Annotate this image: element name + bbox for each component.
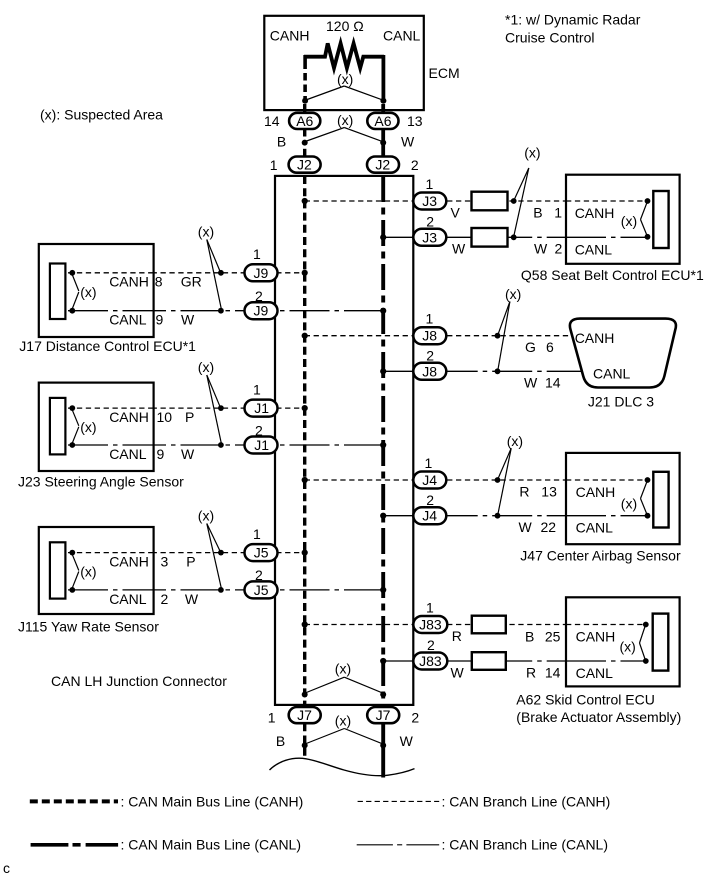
node bus CANH junction y408 (302, 405, 308, 411)
node J17 CANL pin (69, 308, 75, 314)
label J23 CANL pin number (157, 446, 165, 462)
svg-text:R: R (526, 665, 536, 681)
wire break squiggle (270, 758, 415, 775)
svg-text:W: W (534, 240, 548, 256)
connector J8 pin 1 (413, 327, 446, 344)
node branch J23 CANL (218, 442, 224, 448)
label J115 CANL pin number (161, 591, 169, 607)
svg-text:J115 Yaw Rate Sensor: J115 Yaw Rate Sensor (18, 619, 159, 635)
wire inside J17 CANH (68, 272, 154, 274)
node branch J17 CANL (218, 308, 224, 314)
suspect mark branch J17 (198, 224, 222, 309)
pin 1 label J7 (268, 710, 276, 726)
node ECM CANH (302, 98, 308, 104)
svg-text:22: 22 (541, 519, 557, 535)
connector A6 pin 14 (289, 113, 320, 129)
node J8 branch CANL (495, 368, 501, 374)
svg-text:: CAN Branch Line (CANH): : CAN Branch Line (CANH) (442, 793, 611, 809)
svg-text:(x): (x) (620, 639, 636, 655)
wire CAN branch CANL J17 (72, 310, 384, 312)
svg-text:W: W (519, 519, 533, 535)
svg-text:*1: w/ Dynamic Radar: *1: w/ Dynamic Radar (505, 12, 641, 28)
label caption DLC3 (588, 394, 654, 410)
node Q58 CANH pin (645, 198, 651, 204)
svg-text:CANL: CANL (575, 241, 613, 257)
device box Q58 (566, 175, 680, 264)
label J3 CANL wire color W (452, 240, 466, 256)
svg-text:J4: J4 (422, 472, 437, 488)
svg-text:CANL: CANL (109, 446, 147, 462)
svg-text:1: 1 (268, 710, 276, 726)
svg-text:1: 1 (253, 526, 261, 542)
noise filter CANH Q58 (472, 192, 508, 211)
suspect mark branch J23 (198, 359, 222, 443)
device box A62 (566, 597, 680, 686)
svg-text:B: B (525, 628, 534, 644)
svg-text:J21 DLC 3: J21 DLC 3 (588, 394, 654, 410)
svg-text:CANL: CANL (109, 312, 147, 328)
svg-text:3: 3 (161, 554, 169, 570)
node J17 CANH pin (69, 270, 75, 276)
node bus CANH junction y624 (302, 621, 308, 627)
label J23 CANH wire color (185, 409, 194, 425)
connector J5 pin 2 (245, 581, 278, 598)
wire ECM CANH lead (303, 55, 307, 101)
connector J3 pin 2 (413, 229, 446, 246)
ECM CANH label (270, 28, 310, 44)
wire stub A6 right (381, 104, 385, 113)
node bus CANH junction y201 (302, 198, 308, 204)
svg-text:J2: J2 (375, 157, 390, 173)
node bus CANL junction y371 (380, 368, 386, 374)
label caption J17 (19, 338, 196, 354)
svg-text:CANH: CANH (576, 629, 616, 645)
label J17 oval pin 2 (255, 288, 263, 304)
label caption J115 (18, 619, 159, 635)
device shape DLC3 (570, 319, 676, 388)
label caption J47 (520, 547, 681, 563)
svg-text:A6: A6 (296, 113, 313, 129)
node B below J7 (302, 742, 308, 748)
wire inside J23 CANH (68, 407, 154, 409)
label DLC3 CANL (593, 366, 631, 382)
label A62 CANH (576, 629, 616, 645)
svg-text:(x): (x) (198, 359, 214, 375)
node J8 branch CANH (495, 333, 501, 339)
label B below J7 (276, 733, 285, 749)
svg-text:(x): (x) (198, 224, 214, 240)
wire inside J47 CANL (566, 515, 648, 517)
connector A6 pin 13 (367, 113, 398, 129)
suspect mark A6-J2 (305, 112, 382, 142)
label J8 pin 2 (426, 348, 434, 364)
pin 13 label (407, 113, 423, 129)
svg-text:1: 1 (253, 246, 261, 262)
connector J8 pin 2 (413, 363, 446, 380)
wire CAN branch CANH J4 (305, 479, 648, 481)
svg-text:CANH: CANH (575, 330, 615, 346)
connector J1 pin 1 (245, 400, 278, 417)
wire stub A6 left (303, 104, 306, 113)
wire CAN branch CANH J23 (72, 407, 305, 409)
node bus CANL junction y515 (380, 513, 386, 519)
svg-text:J1: J1 (254, 437, 269, 453)
svg-text:CANH: CANH (270, 28, 310, 44)
label J23 oval pin 2 (255, 422, 263, 438)
svg-text:W: W (181, 312, 195, 328)
label A62 CANL pin 14 (545, 665, 561, 681)
svg-text:W: W (185, 591, 199, 607)
node bus CANL bottom (380, 692, 386, 698)
device box J115 (39, 527, 154, 614)
legend main bus CANL (31, 837, 301, 853)
legend branch CANL (357, 837, 608, 853)
connector J2 pin 1 (289, 157, 321, 173)
svg-text:(x): (x) (337, 112, 353, 128)
connector J1 pin 2 (245, 437, 278, 454)
svg-text:6: 6 (546, 339, 554, 355)
suspect mark inside Q58 (621, 203, 647, 235)
svg-text:(x): (x) (335, 661, 351, 677)
label DLC3 CANL pin 14 (545, 374, 561, 390)
suspect mark below J7 (305, 713, 383, 745)
resistor 120 ohm (304, 18, 384, 68)
svg-text:A62 Skid Control ECU: A62 Skid Control ECU (516, 692, 655, 708)
node bus CANL junction y310 (380, 308, 386, 314)
label J17 CANL pin number (156, 312, 164, 328)
wire inside J17 CANL (68, 310, 154, 312)
svg-text:CANL: CANL (576, 520, 614, 536)
svg-text:c: c (3, 860, 10, 876)
label caption Q58 (521, 267, 704, 283)
label J47 CANL pin 22 (541, 519, 557, 535)
pin 14 label (264, 113, 280, 129)
label J23 CANL wire color (181, 446, 195, 462)
svg-text:(x): (x) (621, 496, 637, 512)
svg-text:J83: J83 (419, 653, 442, 669)
svg-text:J5: J5 (254, 545, 269, 561)
svg-text:2: 2 (426, 492, 434, 508)
note dynamic radar (505, 12, 641, 46)
svg-text:1: 1 (426, 600, 434, 616)
note suspected area (40, 107, 163, 123)
svg-text:W: W (452, 240, 466, 256)
legend main bus CANH (30, 793, 304, 809)
connector pins J47 (653, 472, 668, 528)
label W below J7 (400, 733, 414, 749)
label caption J23 (18, 474, 184, 490)
suspect mark above J7 (305, 661, 383, 694)
node J115 CANL pin (69, 587, 75, 593)
wire inside A62 CANH (566, 624, 646, 626)
pin 2 label J2 (411, 157, 419, 173)
wire CAN branch CANL J115 (72, 589, 384, 591)
svg-text:J2: J2 (297, 157, 312, 173)
label DLC3 CANL wire color W (524, 374, 538, 390)
connector J9 pin 2 (245, 302, 278, 319)
suspect mark inside J17 (72, 275, 96, 310)
svg-text:CANL: CANL (593, 366, 631, 382)
svg-text:2: 2 (411, 157, 419, 173)
label J47 CANH wire color R (519, 484, 529, 500)
svg-text:CANH: CANH (576, 484, 616, 500)
label J47 CANL wire color W (519, 519, 533, 535)
svg-text:(x): (x) (335, 713, 351, 729)
svg-text:13: 13 (407, 113, 423, 129)
connector J3 pin 1 (413, 193, 446, 210)
svg-text:R: R (452, 628, 462, 644)
device box J23 (39, 383, 154, 471)
connector J9 pin 1 (245, 264, 278, 281)
wire W between A6 and J2 (381, 130, 385, 157)
label J115 CANL (109, 591, 147, 607)
svg-text:J17 Distance Control ECU*1: J17 Distance Control ECU*1 (19, 338, 196, 354)
label J115 CANH (109, 554, 149, 570)
svg-text:J47 Center Airbag Sensor: J47 Center Airbag Sensor (520, 547, 681, 563)
label J23 oval pin 1 (253, 381, 261, 397)
node bus CANL junction y445 (380, 442, 386, 448)
label B (277, 134, 286, 150)
svg-text:(x): (x) (621, 213, 637, 229)
node J47 CANL pin (645, 513, 651, 519)
svg-text:J3: J3 (422, 229, 437, 245)
connector J7 pin 1 (289, 707, 321, 723)
svg-text:CANH: CANH (575, 205, 615, 221)
connector pins Q58 (653, 191, 668, 248)
label CAN LH Junction Connector (51, 673, 227, 689)
node bus CANH junction y480 (302, 477, 308, 483)
svg-text:ECM: ECM (429, 65, 460, 81)
noise filter CANH A62 (472, 616, 506, 634)
node J23 CANH pin (69, 405, 75, 411)
label J17 CANH pin number (155, 274, 163, 290)
node bus CANL junction y589 (380, 587, 386, 593)
wire inside A62 CANL (566, 660, 646, 662)
svg-text:B: B (533, 205, 542, 221)
node W wire (380, 140, 386, 146)
connector J2 pin 2 (367, 157, 399, 173)
connector J5 pin 1 (245, 544, 278, 561)
connector pins J115 (50, 542, 66, 598)
wire CAN branch CANL J4 (383, 515, 647, 517)
node bus CANH junction y335 (302, 333, 308, 339)
svg-text:(x): (x) (524, 145, 540, 161)
svg-text:1: 1 (426, 176, 434, 192)
suspect mark inside J23 (72, 410, 96, 444)
svg-text:J8: J8 (422, 328, 437, 344)
label A62 CANL (576, 665, 614, 681)
svg-text:J1: J1 (254, 400, 269, 416)
wire ECM CANL lead (381, 55, 385, 101)
ECM CANL label (383, 28, 421, 44)
node A62 CANL pin (643, 658, 649, 664)
label J4 pin 1 (425, 455, 433, 471)
wire CAN branch CANL J3 (383, 236, 647, 238)
label Q58 CANH (575, 205, 615, 221)
svg-text:2: 2 (411, 710, 419, 726)
node W below J7 (380, 742, 386, 748)
wire inside Q58 CANH (566, 200, 648, 202)
label W (401, 134, 415, 150)
svg-text:J4: J4 (422, 508, 437, 524)
label J4 pin 2 (426, 492, 434, 508)
node J4 branch CANL (495, 513, 501, 519)
wire CAN branch CANL J83 (383, 660, 645, 662)
label J17 CANH (109, 274, 149, 290)
svg-text:CANL: CANL (383, 28, 421, 44)
ECM box U-ECM (264, 16, 459, 110)
svg-text:: CAN Main Bus Line (CANL): : CAN Main Bus Line (CANL) (121, 837, 302, 853)
svg-text:J5: J5 (254, 582, 269, 598)
label J115 oval pin 2 (255, 567, 263, 583)
svg-text:J7: J7 (376, 707, 391, 723)
svg-text:W: W (451, 665, 465, 681)
svg-text:(x): (x) (337, 71, 353, 87)
svg-text:R: R (519, 484, 529, 500)
node bus CANL junction y661 (380, 658, 386, 664)
device box J47 (566, 453, 680, 544)
node J23 CANL pin (69, 442, 75, 448)
wire CAN branch CANL J8 (383, 370, 584, 372)
label A62 CANH pin 25 (545, 628, 561, 644)
label J115 CANH wire color (186, 554, 195, 570)
wire CAN branch CANH J83 (305, 624, 646, 626)
label Q58 CANL (575, 241, 613, 257)
svg-text:: CAN Branch Line (CANL): : CAN Branch Line (CANL) (442, 837, 609, 853)
label J23 CANL (109, 446, 147, 462)
CAN main bus CANH (left, thick dashed) (303, 176, 306, 757)
svg-text:(x): (x) (507, 433, 523, 449)
wire inside J47 CANH (566, 479, 648, 481)
svg-text:V: V (451, 204, 461, 220)
svg-text:(x): (x) (80, 564, 96, 580)
label J83 pin 1 (426, 600, 434, 616)
label J17 oval pin 1 (253, 246, 261, 262)
svg-text:(x): (x) (505, 286, 521, 302)
label caption A62 line 1 (516, 692, 655, 708)
label Q58 CANH pin 1 (554, 205, 562, 221)
suspect mark ECM (306, 71, 383, 100)
pin 1 label J2 (270, 157, 278, 173)
wire CAN branch CANH J3 (305, 200, 648, 202)
noise filter CANL Q58 (472, 228, 508, 247)
connector pins J23 (50, 398, 66, 455)
node branch J17 CANH (218, 270, 224, 276)
wire CAN branch CANL J23 (72, 444, 384, 446)
label J17 CANL wire color (181, 312, 195, 328)
label DLC3 CANH (575, 330, 615, 346)
svg-text:(Brake Actuator Assembly): (Brake Actuator Assembly) (516, 709, 681, 725)
label J83 CANH wire color R (452, 628, 462, 644)
suspect mark branch J4 (498, 433, 523, 514)
svg-text:14: 14 (545, 374, 561, 390)
label DLC3 CANH pin 6 (546, 339, 554, 355)
node Q58 branch CANH (511, 198, 517, 204)
suspect mark inside J47 (621, 482, 647, 514)
label Q58 CANL wire color W (534, 240, 548, 256)
svg-text:1: 1 (426, 311, 434, 327)
svg-text:W: W (181, 446, 195, 462)
svg-text:1: 1 (425, 455, 433, 471)
svg-text:8: 8 (155, 274, 163, 290)
label J83 CANL wire color W (451, 665, 465, 681)
svg-text:9: 9 (156, 312, 164, 328)
node A62 CANH pin (643, 622, 649, 628)
svg-text:CANH: CANH (109, 554, 149, 570)
label J17 CANH wire color (181, 274, 202, 290)
label J115 CANL wire color (185, 591, 199, 607)
label J3 pin 2 (426, 214, 434, 230)
svg-text:G: G (525, 339, 536, 355)
svg-text:14: 14 (264, 113, 280, 129)
label J47 CANH (576, 484, 616, 500)
connector J83 pin 2 (413, 653, 447, 670)
svg-text:A6: A6 (374, 113, 391, 129)
svg-text:2: 2 (161, 591, 169, 607)
svg-text:10: 10 (157, 409, 173, 425)
node branch J115 CANH (218, 550, 224, 556)
svg-text:(x): (x) (80, 419, 96, 435)
CAN LH junction connector box (275, 176, 413, 705)
label J8 pin 1 (426, 311, 434, 327)
suspect mark inside A62 (620, 627, 646, 660)
label Q58 CANH wire color B (533, 205, 542, 221)
label J3 CANH wire color V (451, 204, 461, 220)
svg-text:2: 2 (426, 214, 434, 230)
svg-text:CANH: CANH (109, 274, 149, 290)
label J3 pin 1 (426, 176, 434, 192)
label J17 CANL (109, 312, 147, 328)
svg-text:CANL: CANL (576, 665, 614, 681)
label DLC3 CANH wire color G (525, 339, 536, 355)
wire inside J115 CANL (68, 589, 154, 591)
connector J83 pin 1 (413, 616, 447, 633)
svg-text:14: 14 (545, 665, 561, 681)
device box J17 (39, 244, 154, 337)
wire CAN branch CANH J115 (72, 552, 305, 554)
svg-text:W: W (524, 374, 538, 390)
CAN main bus CANL (right, thick dash-dot) (381, 176, 385, 778)
suspect mark inside J115 (72, 554, 96, 588)
svg-text:W: W (401, 134, 415, 150)
svg-text:25: 25 (545, 628, 561, 644)
svg-text:1: 1 (253, 381, 261, 397)
node bus CANH junction y272 (302, 270, 308, 276)
node branch J115 CANL (218, 587, 224, 593)
svg-text:J8: J8 (422, 363, 437, 379)
svg-text:: CAN Main Bus Line (CANH): : CAN Main Bus Line (CANH) (121, 793, 304, 809)
node Q58 CANL pin (645, 234, 651, 240)
node bus CANH junction y552 (302, 550, 308, 556)
wire CAN branch CANH J17 (72, 272, 305, 274)
wire inside J115 CANH (68, 552, 154, 554)
label Q58 CANL pin 2 (555, 240, 563, 256)
wire B between A6 and J2 (303, 130, 306, 157)
connector J7 pin 2 (367, 707, 399, 723)
svg-text:13: 13 (541, 484, 557, 500)
connector pins A62 (653, 614, 669, 671)
wire inside J23 CANL (68, 444, 154, 446)
svg-text:Cruise Control: Cruise Control (505, 30, 594, 46)
svg-text:J23 Steering Angle Sensor: J23 Steering Angle Sensor (18, 474, 184, 490)
node bus CANL junction y237 (380, 234, 386, 240)
label J47 CANH pin 13 (541, 484, 557, 500)
node J4 branch CANH (495, 477, 501, 483)
svg-text:J9: J9 (254, 265, 269, 281)
svg-text:W: W (400, 733, 414, 749)
node bus CANH bottom (302, 692, 308, 698)
connector pins J17 (50, 264, 66, 320)
